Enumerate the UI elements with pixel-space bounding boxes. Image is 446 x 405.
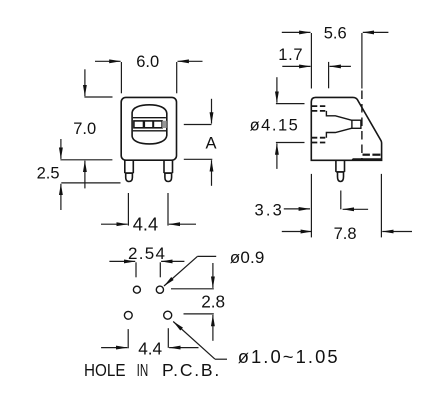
dim 7.0 arrows bbox=[84, 69, 86, 188]
center hidden line bbox=[361, 91, 363, 160]
dim 3.3 arrows bbox=[284, 208, 368, 210]
svg-text:1.7: 1.7 bbox=[278, 46, 302, 64]
dim 5.6 arrows bbox=[282, 31, 389, 33]
dim 2.8 arrows bbox=[212, 263, 214, 341]
LED lens circle bbox=[132, 105, 167, 144]
clip profile upper bbox=[326, 111, 352, 120]
front left leg bbox=[125, 160, 134, 181]
hole top right bbox=[156, 286, 163, 293]
dim A lower line bbox=[184, 158, 213, 160]
dim 2.54 extension lines bbox=[136, 262, 160, 277]
dim 1.7 arrows bbox=[282, 65, 351, 67]
svg-text:4.4: 4.4 bbox=[133, 214, 158, 234]
dim A arrows bbox=[211, 99, 213, 186]
leader 1.0~1.05 bbox=[173, 322, 227, 360]
side view leg bbox=[336, 160, 345, 181]
clip box bbox=[352, 120, 361, 128]
svg-text:A: A bbox=[205, 135, 216, 153]
svg-text:2.5: 2.5 bbox=[37, 165, 60, 183]
lens chord lines bbox=[133, 118, 166, 131]
dim 2.5 arrows bbox=[60, 139, 62, 210]
bottom right step bbox=[353, 155, 381, 161]
side view outline bbox=[311, 97, 381, 160]
dim 7.0 top extension line bbox=[84, 96, 112, 98]
svg-text:4.4: 4.4 bbox=[138, 339, 162, 359]
leg bottom extension line bbox=[61, 182, 120, 184]
front view body bbox=[121, 97, 176, 160]
dim 2.8 witness lines bbox=[171, 289, 214, 314]
front right leg bbox=[164, 160, 173, 181]
clip profile lower bbox=[326, 128, 352, 138]
svg-text:ø1.0~1.05: ø1.0~1.05 bbox=[238, 346, 338, 367]
dim 2.54 arrows bbox=[109, 260, 184, 262]
dim 7.8 arrows bbox=[282, 231, 412, 233]
dim 7.8 extension lines bbox=[311, 174, 381, 238]
body bottom extension line bbox=[60, 159, 112, 161]
svg-text:7.0: 7.0 bbox=[73, 120, 96, 138]
svg-text:2.8: 2.8 bbox=[201, 292, 225, 312]
dim 4.4 pcb arrows bbox=[101, 347, 198, 349]
dim 4.4 front extension lines bbox=[128, 193, 168, 226]
gray cap right of ladder bbox=[162, 121, 167, 128]
hole top left bbox=[133, 286, 140, 293]
dim 4.15 arrows bbox=[276, 77, 278, 169]
dim 1.7 extension line bbox=[328, 62, 330, 88]
dim 4.15 lower line bbox=[276, 142, 305, 144]
svg-text:6.0: 6.0 bbox=[136, 53, 159, 71]
dim 4.4 pcb extension lines bbox=[128, 328, 168, 348]
dim A upper line bbox=[184, 124, 212, 126]
leader 0.9 bbox=[164, 256, 216, 286]
hole bottom left bbox=[124, 311, 132, 319]
dim 5.6 extension lines bbox=[311, 33, 362, 89]
LED chip ladder bbox=[134, 121, 162, 128]
svg-text:5.6: 5.6 bbox=[324, 25, 347, 43]
dim 3.3 corner bbox=[340, 191, 342, 210]
dim 4.15 upper line bbox=[276, 103, 305, 105]
side slot hidden lines bbox=[312, 106, 327, 142]
dim 6.0 arrows bbox=[95, 60, 203, 62]
svg-text:7.8: 7.8 bbox=[334, 225, 357, 243]
svg-text:3.3: 3.3 bbox=[255, 201, 282, 219]
dim 6.0 extension lines bbox=[121, 62, 176, 93]
hole bottom right bbox=[164, 311, 172, 319]
svg-text:ø4.15: ø4.15 bbox=[250, 116, 298, 134]
svg-text:2.54: 2.54 bbox=[128, 244, 165, 263]
dim 4.4 front arrows bbox=[101, 223, 196, 225]
svg-text:ø0.9: ø0.9 bbox=[230, 248, 265, 267]
